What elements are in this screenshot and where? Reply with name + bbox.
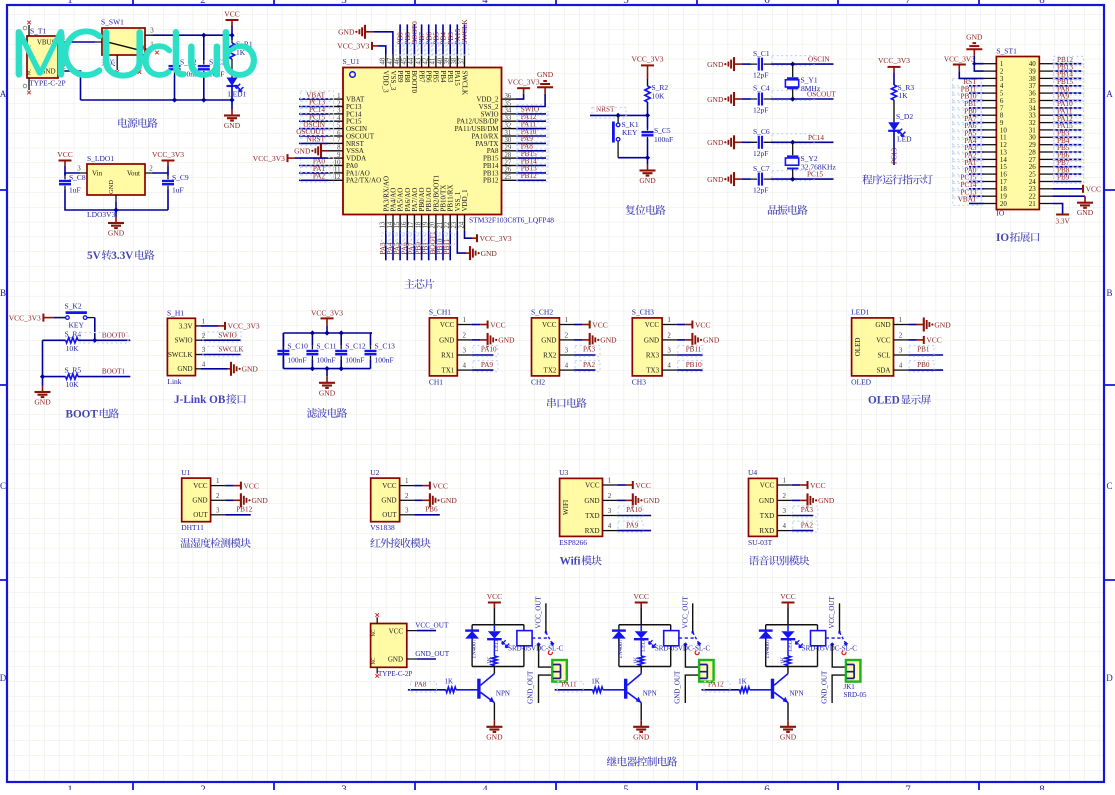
svg-text:32.768KHz: 32.768KHz	[801, 162, 836, 171]
svg-text:PA9: PA9	[481, 361, 494, 369]
wire net PB14	[516, 165, 546, 167]
power VCC_3V3 boot	[9, 313, 44, 322]
capacitor S_C8 1uF	[59, 173, 86, 195]
capacitor S_C10 100nF	[277, 333, 308, 369]
wire to gnd	[42, 377, 44, 386]
transistor Q3 NPN	[773, 674, 804, 703]
wire net PB0	[421, 231, 423, 261]
svg-text:1K: 1K	[899, 91, 909, 100]
wire VSS_1	[457, 231, 466, 254]
svg-text:10: 10	[334, 159, 341, 166]
wire red	[917, 339, 924, 341]
svg-text:8: 8	[1039, 0, 1045, 6]
wire net PB8	[406, 24, 408, 54]
wire LED to bus	[231, 86, 233, 100]
svg-text:RX3: RX3	[646, 351, 660, 359]
ground jlink	[231, 362, 258, 376]
svg-text:NPN: NPN	[790, 690, 804, 698]
svg-text:VCC_3V3: VCC_3V3	[508, 78, 540, 87]
svg-text:OSCIN: OSCIN	[808, 56, 830, 64]
wire switch to VCC node	[153, 34, 233, 36]
svg-text:26: 26	[505, 167, 512, 174]
wire net PB10	[442, 231, 444, 261]
junction OSCOUT	[790, 96, 795, 101]
wire net PB13	[516, 172, 546, 174]
svg-text:4: 4	[608, 522, 612, 530]
svg-text:VCC: VCC	[382, 482, 397, 490]
svg-text:S_C6: S_C6	[753, 127, 770, 136]
wire net PB11	[969, 92, 984, 94]
svg-text:2: 2	[337, 100, 341, 107]
title 继电器控制电路	[607, 756, 678, 766]
svg-text:7: 7	[905, 0, 911, 6]
svg-text:GND: GND	[381, 497, 396, 505]
junction bus gnd	[229, 97, 234, 102]
svg-text:VCC_3V3: VCC_3V3	[878, 56, 910, 65]
svg-text:PB11: PB11	[443, 238, 451, 254]
ground relay3	[780, 720, 797, 741]
svg-text:VCC_3V3: VCC_3V3	[311, 309, 343, 318]
svg-text:TYPE-C-2P: TYPE-C-2P	[29, 79, 66, 88]
svg-text:GND: GND	[294, 147, 311, 156]
svg-text:TX2: TX2	[544, 367, 557, 375]
wire net PA9	[617, 530, 651, 532]
svg-text:1K: 1K	[633, 656, 640, 664]
ground S_C4	[707, 92, 734, 106]
wire to gnd	[647, 158, 649, 164]
wire base	[456, 689, 479, 691]
junction io gnd	[972, 62, 976, 66]
title IO拓展口	[996, 232, 1039, 244]
wire net PA5	[969, 136, 984, 138]
ground	[34, 386, 51, 407]
resistor R3B 1K	[738, 677, 750, 692]
svg-text:2: 2	[149, 165, 153, 173]
svg-text:100nF: 100nF	[345, 356, 364, 365]
wire relay bottom rail	[766, 666, 818, 668]
capacitor S_C5 100nF	[642, 115, 674, 157]
svg-text:31: 31	[505, 130, 512, 137]
power VCC io	[1083, 185, 1101, 194]
wire rail to R4	[43, 339, 66, 341]
wire collector	[640, 667, 642, 674]
power VCC_3V3 runled	[878, 56, 910, 72]
wire VSS_3 gnd	[366, 31, 374, 33]
power 3.3V io	[1056, 215, 1071, 226]
wire relay top rail	[472, 624, 524, 626]
title 串口电路	[547, 398, 586, 408]
ground IO top	[966, 32, 983, 56]
ground io pin22	[1077, 196, 1094, 217]
svg-text:SWCLK: SWCLK	[460, 71, 468, 96]
junction VCC node	[229, 33, 234, 38]
wire net PB8	[1052, 173, 1081, 175]
ground	[108, 217, 125, 238]
wire pin21 3.3V	[1052, 204, 1062, 215]
no-connect	[138, 70, 142, 74]
svg-text:VCC: VCC	[487, 592, 502, 601]
ground	[319, 376, 336, 397]
svg-text:NC: NC	[28, 68, 33, 76]
title 红外接收模块	[370, 538, 430, 548]
title 语音识别模块	[749, 555, 809, 565]
svg-text:GND: GND	[633, 732, 650, 741]
wire net GND_OUT	[539, 675, 553, 703]
wire key to BOOT0	[94, 318, 96, 341]
wire VCC	[617, 484, 625, 486]
svg-text:GND: GND	[707, 175, 724, 184]
svg-text:4: 4	[565, 362, 569, 370]
svg-text:SRD-05VDC-SL-C: SRD-05VDC-SL-C	[508, 644, 564, 652]
svg-text:CH2: CH2	[531, 377, 545, 386]
ground VSSA	[294, 144, 321, 158]
svg-text:1K: 1K	[591, 677, 600, 685]
wire gnd	[677, 339, 685, 341]
ground S_C1	[707, 57, 734, 71]
wire net PB9	[1052, 181, 1081, 183]
wire red	[582, 324, 589, 326]
svg-text:VCC: VCC	[635, 481, 650, 490]
wire VCC	[472, 324, 480, 326]
svg-text:30: 30	[505, 137, 512, 144]
wire net PB12	[1052, 63, 1081, 65]
wire net PA12	[702, 689, 740, 691]
wire net PB3	[1052, 136, 1081, 138]
power VCC_3V3 VDD_3	[337, 42, 372, 51]
wire bottom	[65, 190, 168, 211]
wire power bottom bus	[81, 99, 233, 101]
diode D3 1N4007	[759, 625, 773, 667]
terminal block JK3	[846, 660, 861, 682]
wire net PC14	[771, 141, 834, 143]
wire net PA5	[399, 231, 401, 261]
svg-text:28: 28	[505, 152, 512, 159]
wire net VCC_OUT	[417, 630, 436, 632]
wire net PB3	[449, 24, 451, 54]
wire net PA1	[299, 172, 328, 174]
power VCC	[590, 320, 608, 329]
svg-text:VCC_OUT: VCC_OUT	[415, 622, 449, 630]
wire red	[423, 499, 430, 501]
svg-text:VCC: VCC	[592, 320, 607, 329]
svg-text:4: 4	[482, 0, 488, 6]
svg-text:NRST: NRST	[596, 106, 615, 114]
wire net PA9	[472, 369, 494, 371]
capacitor S_C2 100nF	[169, 35, 199, 100]
wire net GND_OUT	[417, 658, 436, 660]
svg-text:19: 19	[423, 221, 430, 228]
svg-text:29: 29	[505, 145, 512, 152]
connector T2 TYPE-C-2P (relay power)	[371, 617, 417, 678]
svg-text:VCC: VCC	[542, 321, 557, 329]
wire gnd	[414, 499, 422, 501]
wire net PA4	[969, 144, 984, 146]
svg-text:GND: GND	[541, 336, 556, 344]
wire gnd	[201, 368, 227, 370]
svg-text:GND: GND	[644, 336, 659, 344]
svg-text:39: 39	[444, 57, 451, 64]
svg-text:3: 3	[202, 346, 206, 354]
capacitor S_C3 10uF	[198, 35, 226, 100]
svg-text:7: 7	[337, 137, 341, 144]
svg-text:PB4: PB4	[439, 71, 447, 84]
wire red	[234, 485, 241, 487]
svg-text:100nF: 100nF	[654, 135, 673, 144]
wire vcc to R3	[893, 72, 895, 85]
svg-text:2: 2	[200, 784, 206, 791]
connector S_T1 (TYPE-C-2P)	[23, 25, 66, 90]
svg-text:C: C	[0, 481, 6, 491]
svg-text:S_C9: S_C9	[172, 173, 189, 182]
svg-text:GND_OUT: GND_OUT	[527, 670, 535, 704]
svg-text:35: 35	[505, 100, 512, 107]
svg-text:S_R5: S_R5	[65, 366, 82, 375]
svg-text:36: 36	[505, 93, 512, 100]
wire net PA0	[969, 173, 984, 175]
svg-text:VCC: VCC	[440, 321, 455, 329]
wire net PB12	[225, 514, 251, 516]
junction f1	[310, 330, 315, 335]
svg-text:41: 41	[430, 58, 437, 65]
svg-text:15: 15	[394, 221, 401, 228]
svg-text:1: 1	[899, 316, 903, 324]
svg-text:S_C8: S_C8	[69, 173, 86, 182]
capacitor S_C13 100nF	[365, 333, 396, 369]
terminal block JK2	[699, 660, 714, 682]
wire net SWIO	[516, 113, 546, 115]
svg-text:1N4007: 1N4007	[470, 639, 477, 659]
svg-text:RXD: RXD	[585, 527, 600, 535]
wire to ground	[231, 100, 233, 109]
svg-text:12pF: 12pF	[753, 149, 768, 158]
svg-text:S_SW1: S_SW1	[101, 18, 124, 27]
svg-text:2: 2	[782, 492, 786, 500]
wire VCC to C8	[64, 166, 66, 176]
svg-text:LDO3V3: LDO3V3	[87, 210, 116, 219]
svg-text:SWIO: SWIO	[175, 337, 193, 345]
svg-text:VCC_3V3: VCC_3V3	[253, 154, 285, 163]
wire net PB5	[435, 24, 437, 54]
svg-text:PB6: PB6	[425, 506, 438, 514]
transistor Q2 NPN	[626, 674, 657, 703]
ground	[639, 164, 656, 185]
wire red	[480, 339, 487, 341]
svg-text:IO: IO	[996, 209, 1004, 218]
svg-text:OLED: OLED	[854, 338, 862, 357]
svg-text:VCC: VCC	[645, 321, 660, 329]
wire net PB0	[969, 114, 984, 116]
svg-text:3: 3	[337, 108, 341, 115]
svg-text:14: 14	[387, 221, 394, 228]
svg-text:3: 3	[899, 347, 903, 355]
wire net BOOT1	[435, 231, 437, 261]
svg-text:S_ST1: S_ST1	[996, 47, 1017, 56]
svg-text:S_C4: S_C4	[753, 84, 770, 93]
svg-text:SWCLK: SWCLK	[168, 351, 193, 359]
svg-text:GND: GND	[498, 336, 515, 345]
svg-text:VCC: VCC	[389, 628, 404, 636]
svg-text:5: 5	[623, 0, 629, 6]
wire net PB4	[1052, 144, 1081, 146]
svg-text:GND: GND	[486, 732, 503, 741]
svg-text:VCC_3V3: VCC_3V3	[480, 234, 512, 243]
svg-text:11: 11	[334, 167, 341, 174]
svg-text:PA2: PA2	[801, 521, 814, 529]
svg-text:2: 2	[216, 492, 220, 500]
svg-text:3.3V: 3.3V	[111, 250, 133, 262]
svg-text:10K: 10K	[66, 380, 80, 389]
svg-text:GND: GND	[875, 321, 890, 329]
svg-text:1uF: 1uF	[69, 186, 81, 195]
svg-text:1: 1	[782, 477, 786, 485]
svg-text:PA2: PA2	[583, 361, 596, 369]
wire collector	[787, 667, 789, 674]
svg-text:3: 3	[463, 347, 467, 355]
svg-text:NRST: NRST	[307, 136, 326, 144]
wire net PA2	[969, 158, 984, 160]
svg-text:VCC_3V3: VCC_3V3	[228, 322, 260, 331]
svg-text:12: 12	[334, 174, 341, 181]
terminal block JK1	[552, 660, 567, 682]
junction key gnd	[645, 155, 650, 160]
wire filter bottom rail	[283, 368, 370, 370]
svg-text:PB1: PB1	[917, 346, 930, 354]
wire gnd	[617, 499, 625, 501]
svg-text:RX2: RX2	[543, 351, 557, 359]
capacitor S_C7 12pF	[735, 164, 771, 195]
svg-text:1: 1	[67, 0, 73, 6]
svg-text:37: 37	[458, 57, 465, 64]
power VCC	[692, 320, 710, 329]
svg-text:3.3V: 3.3V	[1056, 218, 1071, 226]
LED S_D2	[888, 112, 913, 144]
svg-text:6: 6	[764, 784, 770, 791]
svg-text:BOOT0: BOOT0	[410, 71, 418, 94]
power VCC_3V3	[152, 150, 184, 166]
wire emitter	[640, 703, 642, 721]
wire net PA0	[299, 165, 328, 167]
wire net PA11	[516, 128, 546, 130]
wire net PA7	[413, 231, 415, 261]
wire net PA3	[574, 354, 596, 356]
connector S_H1 J-Link	[167, 308, 206, 386]
svg-text:3: 3	[341, 784, 347, 791]
svg-text:20: 20	[430, 221, 437, 228]
svg-text:3: 3	[608, 507, 612, 515]
wire net PA3	[969, 151, 984, 153]
svg-text:S_D2: S_D2	[896, 112, 913, 121]
svg-text:TYPE-C-2P: TYPE-C-2P	[378, 670, 412, 678]
svg-text:IO: IO	[996, 232, 1009, 244]
ground relay1	[486, 720, 503, 741]
svg-text:S_CH2: S_CH2	[531, 308, 553, 317]
wire 3.3V	[201, 325, 218, 327]
wire net PA2	[574, 369, 596, 371]
svg-text:S_LDO1: S_LDO1	[87, 154, 114, 163]
junction f3	[324, 330, 329, 335]
wire net PA2	[792, 530, 814, 532]
svg-text:Vin: Vin	[92, 170, 103, 178]
wire relay top rail	[619, 624, 671, 626]
wire c10 col	[282, 333, 284, 369]
svg-text:OLED: OLED	[868, 395, 900, 407]
svg-text:S_C10: S_C10	[287, 342, 308, 351]
wire red	[626, 499, 633, 501]
svg-text:VBAT: VBAT	[958, 196, 977, 204]
svg-text:42: 42	[423, 57, 430, 64]
svg-text:OLED: OLED	[851, 377, 872, 386]
wire contact to terminal	[832, 644, 846, 667]
wire R2 to NRST	[647, 102, 649, 115]
wire VDD_1	[465, 231, 473, 239]
svg-text:1: 1	[202, 318, 206, 326]
wire VCC	[908, 339, 916, 341]
wire net SWCLK	[201, 354, 241, 356]
svg-text:PB9: PB9	[1057, 174, 1070, 182]
wire red	[685, 324, 692, 326]
svg-text:8MHz: 8MHz	[801, 84, 821, 93]
svg-text:GND: GND	[108, 180, 115, 194]
svg-text:33: 33	[505, 115, 512, 122]
junction f5	[339, 366, 344, 371]
junction boot0	[92, 338, 97, 343]
svg-text:PC14: PC14	[808, 134, 824, 142]
svg-text:VCC_OUT: VCC_OUT	[535, 596, 543, 629]
wire net PC14	[299, 113, 328, 115]
wire net PA3	[792, 515, 814, 517]
wire VSS_2	[516, 94, 545, 107]
svg-text:PA3: PA3	[583, 346, 596, 354]
svg-text:VCC: VCC	[810, 481, 825, 490]
svg-text:32: 32	[505, 122, 512, 129]
svg-text:VCC: VCC	[633, 592, 648, 601]
svg-text:PC13: PC13	[891, 148, 899, 164]
wire R3 to LED	[893, 100, 895, 122]
wire key bottom	[618, 157, 647, 159]
svg-text:GND: GND	[780, 732, 797, 741]
wire relay bottom rail	[619, 666, 671, 668]
wire relay bottom rail	[472, 666, 524, 668]
wire net PA15	[1052, 129, 1081, 131]
wifi module U3 ESP8266	[559, 468, 617, 547]
wire vcc	[640, 608, 642, 625]
svg-text:12pF: 12pF	[753, 71, 768, 80]
svg-text:BOOT1: BOOT1	[102, 368, 126, 376]
svg-text:1: 1	[67, 784, 73, 791]
junction C2 top	[172, 33, 177, 38]
wire net PC15	[299, 120, 328, 122]
title 5V转3.3V电路	[87, 250, 155, 262]
wire VBUS to switch	[65, 41, 95, 43]
svg-text:U2: U2	[370, 468, 379, 477]
no-connect	[155, 51, 159, 55]
svg-text:S_C12: S_C12	[345, 342, 366, 351]
ground S_CH2	[590, 333, 617, 347]
wire red	[626, 484, 633, 486]
svg-text:1: 1	[463, 316, 467, 324]
svg-text:17: 17	[408, 221, 415, 228]
svg-text:S_C1: S_C1	[753, 49, 770, 58]
ground S_CH3	[692, 333, 719, 347]
wire net NRST	[299, 142, 328, 144]
wire net PA9	[1052, 100, 1081, 102]
power VCC_3V3 jlink	[225, 322, 260, 331]
svg-text:VCC_OUT: VCC_OUT	[681, 596, 689, 629]
svg-text:VCC: VCC	[876, 336, 891, 344]
relay K2 coil SRD-05VDC-SL-C	[655, 625, 711, 667]
svg-text:PB3: PB3	[446, 71, 454, 84]
wire net PB15	[516, 157, 546, 159]
